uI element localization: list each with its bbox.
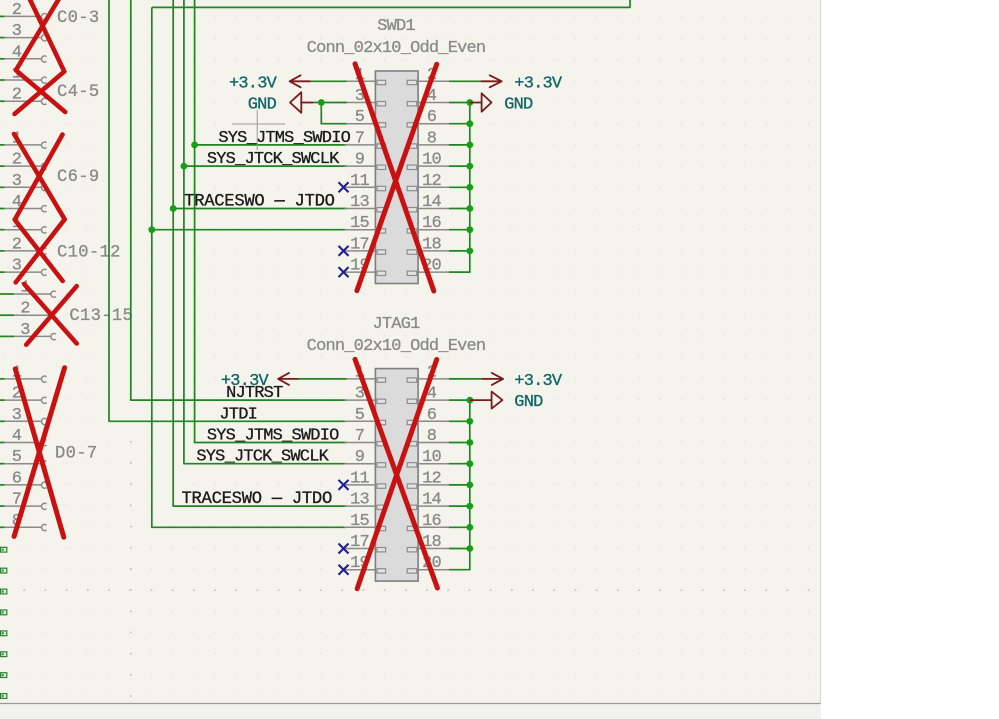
svg-text:SWD1: SWD1	[377, 17, 415, 36]
svg-text:2: 2	[20, 300, 29, 319]
svg-text:10: 10	[422, 151, 441, 170]
svg-text:C6-9: C6-9	[57, 168, 99, 187]
svg-text:14: 14	[422, 491, 441, 510]
svg-text:+3.3V: +3.3V	[229, 74, 278, 93]
svg-text:GND: GND	[248, 96, 277, 115]
svg-text:GND: GND	[504, 96, 533, 115]
svg-text:SYS_JTCK_SWCLK: SYS_JTCK_SWCLK	[196, 448, 329, 467]
svg-text:16: 16	[422, 512, 441, 531]
svg-text:JTAG1: JTAG1	[372, 315, 420, 334]
svg-text:+3.3V: +3.3V	[514, 372, 563, 391]
svg-text:SYS_JTCK_SWCLK: SYS_JTCK_SWCLK	[207, 150, 340, 169]
svg-text:5: 5	[12, 448, 22, 467]
svg-text:6: 6	[427, 406, 437, 425]
svg-text:16: 16	[422, 214, 441, 233]
svg-text:11: 11	[350, 469, 369, 488]
svg-text:GND: GND	[514, 393, 543, 412]
svg-text:7: 7	[355, 427, 364, 446]
svg-text:14: 14	[422, 193, 441, 212]
svg-text:5: 5	[355, 406, 365, 425]
svg-text:12: 12	[422, 172, 441, 191]
svg-text:C10-12: C10-12	[57, 243, 121, 262]
svg-text:2: 2	[12, 1, 21, 20]
svg-text:NJTRST: NJTRST	[226, 384, 283, 403]
svg-text:11: 11	[350, 172, 369, 191]
svg-text:12: 12	[422, 469, 441, 488]
svg-text:C13-15: C13-15	[69, 307, 133, 326]
svg-text:7: 7	[12, 491, 21, 510]
svg-text:17: 17	[350, 235, 369, 254]
svg-text:TRACESWO — JTDO: TRACESWO — JTDO	[184, 193, 335, 212]
svg-text:3: 3	[12, 22, 22, 41]
svg-text:6: 6	[12, 469, 22, 488]
svg-text:7: 7	[355, 129, 364, 148]
svg-text:3: 3	[20, 321, 30, 340]
svg-text:+3.3V: +3.3V	[514, 74, 563, 93]
svg-text:8: 8	[427, 427, 437, 446]
svg-text:3: 3	[12, 406, 22, 425]
svg-text:2: 2	[12, 86, 21, 105]
svg-text:9: 9	[355, 151, 365, 170]
svg-text:5: 5	[355, 108, 365, 127]
svg-text:3: 3	[12, 172, 22, 191]
svg-text:15: 15	[350, 214, 369, 233]
svg-text:4: 4	[12, 427, 22, 446]
svg-text:TRACESWO — JTDO: TRACESWO — JTDO	[181, 490, 332, 509]
svg-text:C0-3: C0-3	[57, 9, 99, 28]
svg-text:8: 8	[427, 129, 437, 148]
svg-text:Conn_02x10_Odd_Even: Conn_02x10_Odd_Even	[307, 337, 486, 356]
svg-text:13: 13	[350, 193, 369, 212]
svg-text:D0-7: D0-7	[55, 445, 97, 464]
svg-text:2: 2	[12, 235, 21, 254]
svg-text:13: 13	[350, 491, 369, 510]
svg-text:SYS_JTMS_SWDIO: SYS_JTMS_SWDIO	[207, 427, 339, 446]
svg-text:C4-5: C4-5	[57, 83, 99, 102]
svg-text:JTDI: JTDI	[219, 405, 257, 424]
svg-text:17: 17	[350, 533, 369, 552]
svg-text:SYS_JTMS_SWDIO: SYS_JTMS_SWDIO	[218, 129, 350, 148]
svg-text:9: 9	[355, 448, 365, 467]
svg-text:18: 18	[422, 235, 441, 254]
svg-text:2: 2	[12, 151, 21, 170]
svg-text:Conn_02x10_Odd_Even: Conn_02x10_Odd_Even	[307, 39, 486, 58]
svg-text:10: 10	[422, 448, 441, 467]
svg-text:15: 15	[350, 512, 369, 531]
svg-text:6: 6	[427, 108, 437, 127]
